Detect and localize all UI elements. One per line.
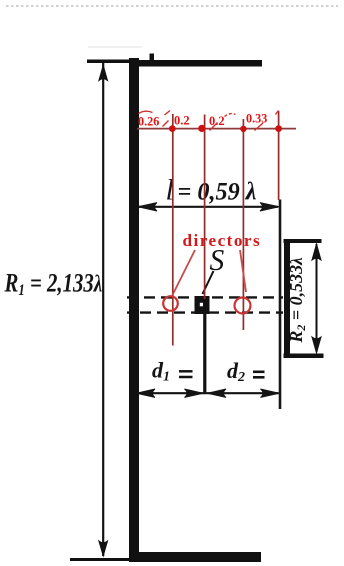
svg-text:0.33: 0.33 — [246, 112, 267, 126]
svg-text:0.26: 0.26 — [138, 115, 159, 129]
svg-text:R2 = 0,533λ: R2 = 0,533λ — [286, 257, 308, 344]
svg-text:directors: directors — [183, 231, 262, 250]
svg-text:0.2: 0.2 — [209, 114, 225, 128]
svg-text:= 0,59 λ: = 0,59 λ — [178, 178, 257, 206]
svg-text:0.2: 0.2 — [174, 114, 190, 128]
